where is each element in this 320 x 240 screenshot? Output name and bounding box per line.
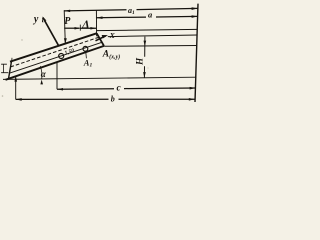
bar top edge <box>10 33 97 61</box>
P dimension line <box>64 27 79 29</box>
svg-text:y: y <box>33 14 39 25</box>
arrowhead b left <box>16 98 22 101</box>
vertical extension V1 with P force drop <box>64 10 65 43</box>
faint scan specks <box>2 39 149 96</box>
svg-text:H: H <box>135 57 145 66</box>
corner tick above T1 <box>11 58 13 61</box>
y axis arrow <box>43 18 59 46</box>
arrowhead c right <box>190 87 196 90</box>
arrowhead H top (down at R3) <box>144 41 147 47</box>
svg-text:Δ: Δ <box>81 19 89 31</box>
dimension line a <box>97 16 198 17</box>
baseline <box>3 77 197 79</box>
b dimension line <box>16 98 195 100</box>
arrowhead x axis <box>102 35 108 38</box>
arrowhead force P down <box>64 38 67 44</box>
bar left end face <box>9 61 12 78</box>
line R3 through point A <box>104 45 197 48</box>
line R1 from bar top corner <box>97 29 198 30</box>
arrowhead H bottom (down at baseline) <box>143 72 146 78</box>
line R2 from X arrow tip <box>108 35 197 37</box>
leader from hole A1 to label <box>85 51 88 58</box>
x axis arrow <box>96 36 106 41</box>
bar line through holes L2 <box>9 42 102 73</box>
svg-text:P: P <box>64 16 71 27</box>
arrowhead delta right <box>90 27 96 30</box>
tick at x=80.3 <box>79 25 81 31</box>
arrowhead y axis <box>42 16 46 22</box>
arrowhead P right <box>75 27 81 30</box>
left end tiny dimension bracket <box>1 64 8 73</box>
b extension line <box>15 76 17 99</box>
bar dashed centerline L1 <box>11 37 100 67</box>
hole O <box>59 54 64 59</box>
hole A1 <box>83 46 88 51</box>
arrowhead a left <box>97 16 103 19</box>
bar bottom edge <box>6 46 105 80</box>
svg-text:b: b <box>111 95 115 104</box>
delta dimension line <box>80 27 96 29</box>
bar right end face <box>97 33 104 46</box>
right vertical extension line <box>195 4 198 102</box>
arrowhead alpha arc up under baseline <box>40 80 43 85</box>
arrowhead b right <box>189 98 195 101</box>
arrowhead b extension up <box>14 76 17 81</box>
c extension line <box>56 62 58 89</box>
angle alpha arc <box>40 66 42 79</box>
arrowhead a1 right <box>192 7 198 10</box>
svg-text:X: X <box>109 31 116 40</box>
H dimension line <box>143 37 146 78</box>
arrowhead a right <box>192 15 198 18</box>
vertical extension V2 <box>95 10 97 36</box>
arrowhead c left <box>57 88 63 91</box>
arrowhead a1 left <box>64 10 70 13</box>
c dimension line <box>57 88 196 89</box>
dimension line a1 <box>64 8 197 11</box>
